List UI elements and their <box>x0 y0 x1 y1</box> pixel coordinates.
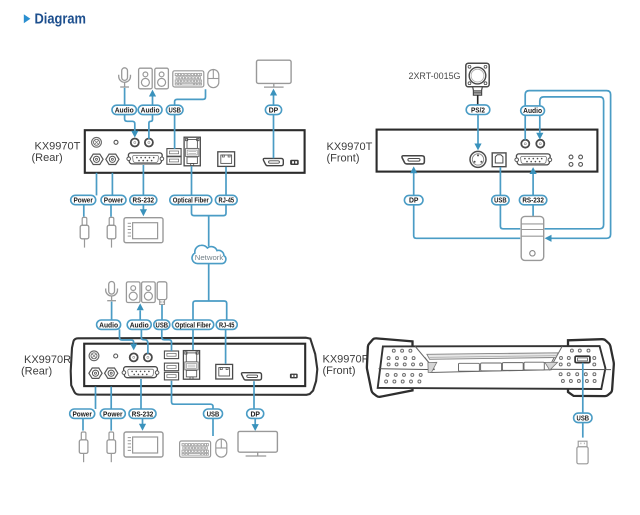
pill Power 2 <box>101 195 126 204</box>
ground screw bottom <box>89 351 99 361</box>
wire rj45 pill to port <box>225 329 227 363</box>
mouse icon bottom <box>216 439 227 457</box>
pill USB bottom2 <box>204 409 223 418</box>
button 4 <box>524 362 544 370</box>
pill Audio front <box>521 106 545 115</box>
power jack 2 bottom <box>105 368 118 378</box>
wire dp pill to tower <box>414 205 521 239</box>
dp port <box>263 158 283 165</box>
svg-text:KX9970R: KX9970R <box>24 354 71 366</box>
arrow into monitor <box>270 89 277 96</box>
speaker icon 1 bottom <box>126 282 140 303</box>
pill USB <box>166 105 183 114</box>
button 1 <box>459 363 480 371</box>
power jack 2 <box>106 154 119 164</box>
usb stick icon small <box>157 282 167 305</box>
panel KX9970T front <box>377 130 598 172</box>
usb single port bottom <box>164 351 178 359</box>
chassis bracket left front-R <box>367 338 413 397</box>
svg-text:Diagram: Diagram <box>35 11 87 27</box>
svg-text:PS/2: PS/2 <box>471 105 485 114</box>
svg-text:USB: USB <box>207 409 220 418</box>
svg-text:Audio: Audio <box>115 106 134 115</box>
tablet icon <box>124 218 163 243</box>
wire db9 to rs232 pill <box>142 165 144 195</box>
wire rs232 pill down bottom <box>142 418 144 424</box>
wire usb pair to pill bottom <box>172 381 214 409</box>
wire usb pill to stick <box>582 423 584 438</box>
usb stick icon <box>577 441 588 464</box>
dc terminal <box>290 160 299 165</box>
ground screw <box>92 137 102 147</box>
svg-text:USB: USB <box>494 196 507 205</box>
arrow into audio port1 <box>131 131 138 138</box>
monitor icon <box>257 60 292 87</box>
svg-text:RS-232: RS-232 <box>522 196 544 205</box>
sfp module bottom <box>183 351 199 380</box>
arrow ps2 pill to port <box>477 115 479 144</box>
pill USB bottom <box>154 320 170 329</box>
svg-text:Audio: Audio <box>130 320 149 329</box>
arrow into speakers bottom <box>137 303 144 310</box>
pill Audio 2 <box>138 105 162 114</box>
audio port 1 <box>131 139 139 147</box>
arrow into speaker <box>149 90 156 97</box>
button 3 <box>502 363 523 371</box>
serial DB9 port <box>127 153 164 164</box>
svg-text:Network: Network <box>195 253 224 262</box>
monitor icon bottom <box>238 431 277 456</box>
wire audio1 pill to port bottom <box>120 329 134 343</box>
svg-text:USB: USB <box>168 106 181 115</box>
pill RJ-45 bottom <box>216 320 237 329</box>
audio port 1 front <box>521 140 529 148</box>
wire audio pill2 up bottom <box>139 310 141 320</box>
svg-text:RJ-45: RJ-45 <box>219 196 235 205</box>
led dots <box>569 155 582 166</box>
dc terminal bottom <box>290 374 298 379</box>
dot grid left <box>385 349 423 383</box>
audio port 1 bottom <box>130 353 138 361</box>
svg-text:USB: USB <box>577 413 590 422</box>
wire usb pill to tower <box>500 205 520 229</box>
wire audio pill2 up to speaker <box>152 96 154 105</box>
pill RS-232 <box>130 195 157 204</box>
camera plate <box>466 63 489 87</box>
pill PS/2 <box>466 105 490 115</box>
keyboard icon bottom <box>180 441 211 457</box>
button 2 <box>481 363 502 371</box>
wire power pill2 to plug bottom <box>110 418 112 430</box>
svg-text:(Front): (Front) <box>327 152 360 164</box>
svg-text:DP: DP <box>409 196 419 205</box>
power plug icon 2 <box>107 217 116 247</box>
wire mouse to usb pill <box>175 89 206 105</box>
serial DB9 front <box>515 154 552 165</box>
svg-text:Audio: Audio <box>141 106 160 115</box>
reset hole bottom <box>114 354 118 358</box>
wire mic to audio pill <box>124 88 126 106</box>
speaker icon 2 bottom <box>142 282 156 303</box>
power jack 1 <box>90 154 103 164</box>
usb pair upper bottom <box>164 363 178 371</box>
svg-text:DP: DP <box>269 106 279 115</box>
tower pc <box>521 216 544 260</box>
bevel diagonals <box>415 346 562 369</box>
band ramp right <box>545 362 558 370</box>
power plug icon 1 bottom <box>79 432 88 462</box>
wire power2 to pill <box>111 173 113 196</box>
pill USB front-R <box>574 413 592 423</box>
svg-text:KX9970T: KX9970T <box>35 141 81 153</box>
usb port upper <box>167 149 181 157</box>
wire usb pill to usb port <box>174 115 176 149</box>
camera cable <box>477 95 479 105</box>
wire dp pill up <box>273 95 275 105</box>
wire dp port to pill bottom <box>253 381 255 409</box>
usb-b port <box>492 153 506 167</box>
wire power pill1 to plug bottom <box>82 418 84 430</box>
wire audio pill1 to audio port1 <box>125 115 135 132</box>
wire rj45 to pill <box>225 167 227 196</box>
wire audio inner elbow <box>540 97 604 229</box>
svg-text:KX9970T: KX9970T <box>327 141 373 153</box>
arrow into audio port1 bottom <box>130 344 137 351</box>
crease lines <box>379 368 612 371</box>
dp port front <box>402 156 424 164</box>
band ramp left <box>428 362 437 372</box>
sfp optical fiber module <box>184 137 200 166</box>
wire dp pill down bottom <box>254 418 256 424</box>
wire mic to pill bottom <box>111 302 113 320</box>
camera gland <box>473 87 483 95</box>
wire db9 to rs232 pill bottom <box>140 379 142 409</box>
tablet icon bottom <box>124 432 163 457</box>
svg-text:Optical Fiber: Optical Fiber <box>175 320 211 329</box>
dp port bottom <box>241 373 261 380</box>
arrow rs232 pill to db9 <box>532 174 534 196</box>
microphone icon bottom <box>106 282 118 301</box>
pill RJ-45 <box>215 195 237 204</box>
svg-text:2XRT-0015G: 2XRT-0015G <box>409 71 461 82</box>
rj45 port <box>218 152 235 167</box>
wire usb pill down bottom <box>212 418 214 436</box>
wire dp pill to dp port <box>273 115 275 159</box>
wire cloud down to split <box>193 264 227 320</box>
chassis KX9970R rear <box>71 338 318 395</box>
power plug icon 2 bottom <box>107 432 116 462</box>
mouse icon <box>208 70 219 88</box>
speaker icon 1 <box>139 68 153 89</box>
svg-text:(Rear): (Rear) <box>32 152 63 164</box>
wire power2 bottom <box>110 387 112 409</box>
ps2 port <box>470 151 486 167</box>
arrow dp pill to port <box>413 173 415 195</box>
pill Power 1 <box>71 195 96 204</box>
reset hole <box>114 140 118 144</box>
pill DP front <box>404 195 423 204</box>
wire audio pill top elbows <box>525 91 610 239</box>
wire power pill2 to plug <box>110 205 112 217</box>
panel KX9970R rear <box>84 344 305 386</box>
svg-text:Power: Power <box>73 196 93 205</box>
dot grid right <box>559 349 596 382</box>
wire optical fiber pill to sfp <box>192 329 194 350</box>
svg-text:DP: DP <box>250 409 260 418</box>
svg-text:Audio: Audio <box>99 320 118 329</box>
wire rs232 pill to tower <box>532 205 534 216</box>
pill USB front <box>492 195 509 204</box>
wire usb pill to port front <box>499 167 501 195</box>
wire usb pill to single port <box>162 329 172 351</box>
pill Optical Fiber <box>170 195 212 204</box>
svg-text:Optical Fiber: Optical Fiber <box>173 196 209 205</box>
svg-text:Power: Power <box>103 409 123 418</box>
keyboard icon <box>173 71 204 87</box>
svg-text:Power: Power <box>72 409 92 418</box>
wire power1 to pill <box>96 173 98 196</box>
svg-text:USB: USB <box>156 320 169 329</box>
wire audio pill2 to audio port2 <box>149 115 153 139</box>
wire sfp to pill <box>191 166 193 195</box>
usb port lower <box>167 157 181 165</box>
panel KX9970T rear <box>85 130 305 173</box>
rj45 port bottom <box>216 364 233 379</box>
svg-text:(Rear): (Rear) <box>21 365 52 377</box>
wire power pill1 to plug <box>83 205 85 217</box>
svg-text:RJ-45: RJ-45 <box>219 320 235 329</box>
svg-text:KX9970R: KX9970R <box>323 354 370 366</box>
pill Power 1 bottom <box>70 409 95 418</box>
pill RS-232 bottom <box>129 409 156 418</box>
pill DP <box>265 105 281 114</box>
pill Audio 2 bottom <box>127 320 151 329</box>
svg-text:Audio: Audio <box>523 106 542 115</box>
wire audio2 pill to port bottom <box>141 329 148 353</box>
network cloud <box>192 245 226 263</box>
wire power1 bottom <box>95 387 97 409</box>
pill RS-232 front <box>519 195 546 204</box>
power jack 1 bottom <box>89 368 102 378</box>
wire rs232 pill down <box>142 205 144 210</box>
arrow into tower right <box>545 235 552 242</box>
chassis bracket right front-R <box>568 339 614 396</box>
wire pills to cloud <box>192 205 227 247</box>
usb port front-R <box>575 356 590 362</box>
audio port 2 front <box>536 140 544 148</box>
usb pair lower bottom <box>164 372 178 380</box>
arrow into tablet <box>140 209 147 216</box>
arrow into tablet bottom <box>139 424 146 431</box>
speaker icon 2 <box>155 68 169 89</box>
band bottom line <box>430 370 552 373</box>
wire audio pill to port1 <box>524 116 526 140</box>
wire usb front-R to pill <box>582 363 584 413</box>
serial DB9 port bottom <box>122 367 159 378</box>
pill DP bottom <box>247 409 264 418</box>
audio port 2 bottom <box>144 353 152 361</box>
header arrow <box>24 14 31 23</box>
pill Audio 1 bottom <box>97 320 121 329</box>
audio port 2 <box>145 139 153 147</box>
arrow into monitor bottom <box>252 424 259 431</box>
svg-text:Power: Power <box>104 196 124 205</box>
svg-text:RS-232: RS-232 <box>133 196 155 205</box>
wire audio pill to port2 with arrow <box>539 116 541 133</box>
svg-text:(Front): (Front) <box>323 365 356 377</box>
wire stick to usb pill <box>161 305 163 320</box>
pill Power 2 bottom <box>100 409 125 418</box>
chassis face front-R <box>378 346 606 389</box>
power plug icon 1 <box>80 217 89 247</box>
top strip <box>427 353 558 360</box>
microphone icon <box>119 68 131 87</box>
svg-text:RS-232: RS-232 <box>132 409 154 418</box>
pill Audio 1 <box>112 105 136 114</box>
pill Optical Fiber bottom <box>172 320 213 329</box>
